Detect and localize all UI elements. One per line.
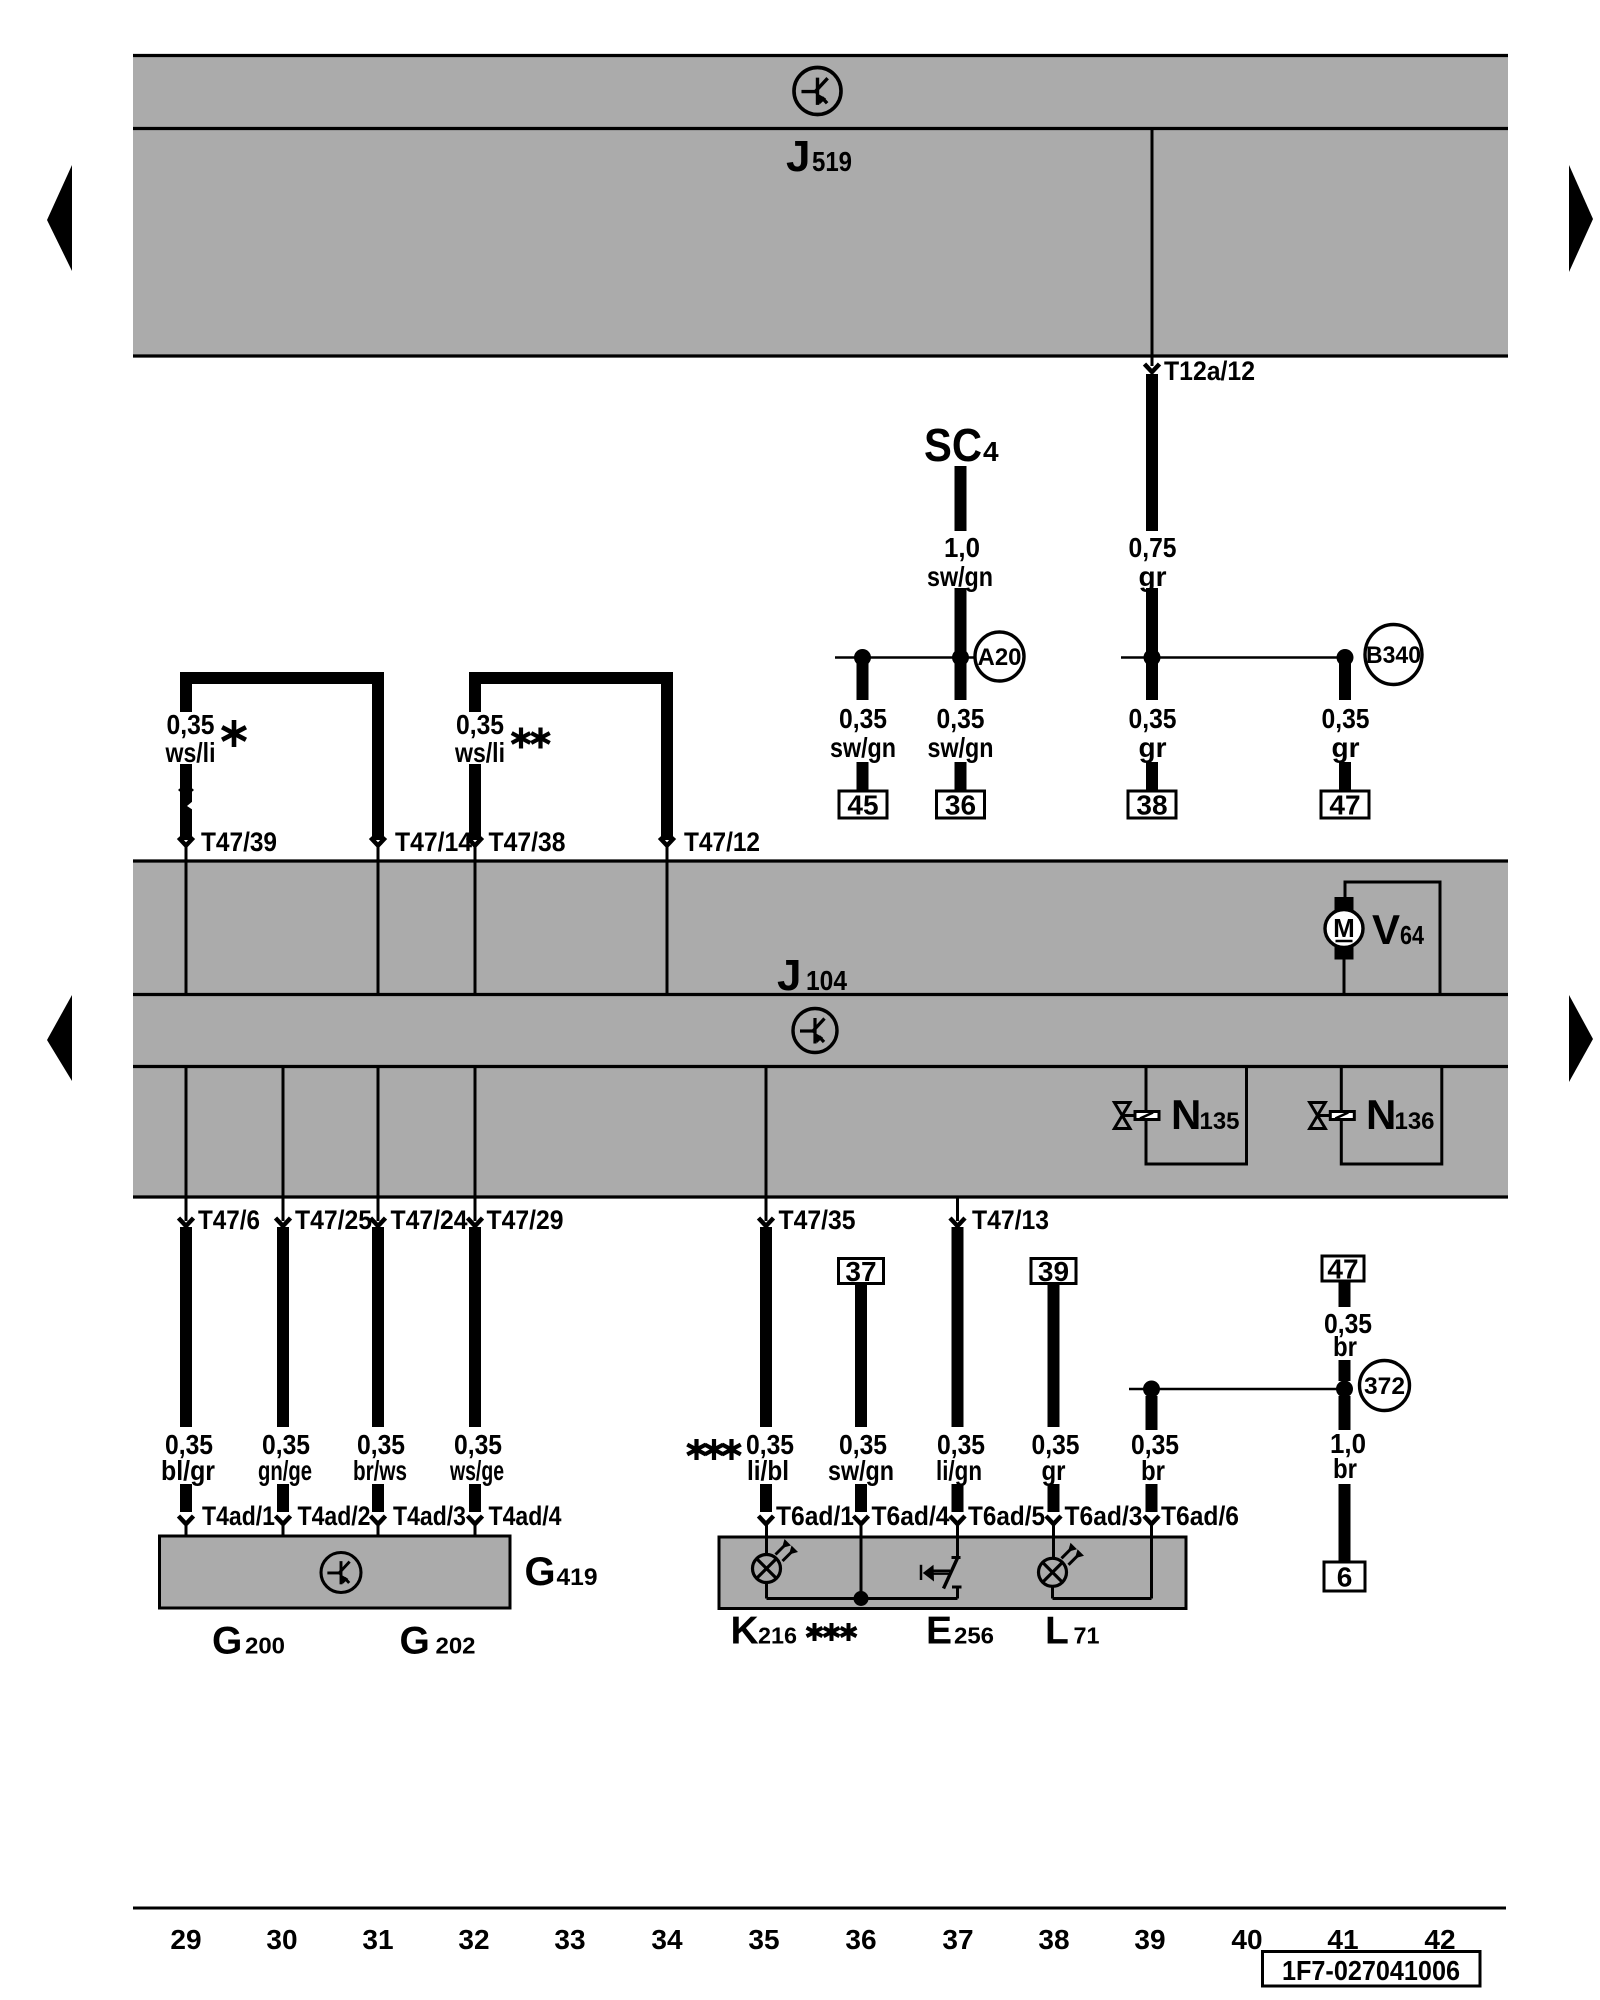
svg-text:30: 30 [266,1924,297,1955]
svg-text:T6ad/5: T6ad/5 [968,1501,1045,1531]
svg-text:135: 135 [1200,1108,1240,1135]
svg-text:T4ad/4: T4ad/4 [489,1501,562,1531]
svg-text:36: 36 [945,790,976,821]
svg-text:G: G [400,1620,430,1663]
svg-text:J: J [786,132,810,181]
svg-text:31: 31 [362,1924,393,1955]
svg-text:M: M [1333,913,1355,943]
svg-text:SC: SC [924,419,982,471]
svg-text:34: 34 [651,1924,683,1955]
svg-text:4: 4 [983,436,999,467]
svg-text:37: 37 [942,1924,973,1955]
svg-text:T47/14: T47/14 [395,827,472,857]
svg-text:br: br [1333,1453,1357,1484]
svg-text:47: 47 [1327,1254,1358,1285]
svg-text:G: G [212,1620,242,1663]
svg-text:T47/12: T47/12 [684,827,760,857]
svg-text:K: K [731,1610,759,1653]
svg-text:N: N [1171,1091,1201,1138]
svg-text:T4ad/2: T4ad/2 [298,1501,371,1531]
svg-text:J: J [777,951,801,1000]
svg-text:419: 419 [557,1564,598,1591]
svg-text:L: L [1045,1610,1069,1653]
svg-text:519: 519 [812,146,852,177]
svg-text:39: 39 [1134,1924,1165,1955]
svg-text:0,35: 0,35 [167,709,215,740]
svg-text:T6ad/1: T6ad/1 [776,1501,854,1531]
svg-text:45: 45 [847,790,878,821]
svg-text:gr: gr [1332,732,1360,763]
svg-text:T47/38: T47/38 [489,827,566,857]
svg-text:37: 37 [845,1256,876,1287]
svg-text:T47/29: T47/29 [487,1205,564,1235]
svg-text:A20: A20 [978,644,1022,671]
svg-text:0,35: 0,35 [937,703,985,734]
svg-text:T47/13: T47/13 [972,1205,1049,1235]
svg-text:256: 256 [954,1623,994,1649]
svg-text:T12a/12: T12a/12 [1164,356,1255,386]
svg-text:T6ad/6: T6ad/6 [1161,1501,1239,1531]
svg-text:64: 64 [1400,920,1424,950]
svg-text:N: N [1366,1091,1396,1138]
svg-text:40: 40 [1231,1924,1262,1955]
svg-text:T47/6: T47/6 [198,1205,260,1235]
svg-text:32: 32 [458,1924,489,1955]
svg-text:0,35: 0,35 [1129,703,1177,734]
svg-text:ws/ge: ws/ge [449,1455,504,1486]
svg-text:T6ad/3: T6ad/3 [1065,1501,1143,1531]
svg-text:V: V [1372,906,1400,953]
svg-text:ws/li: ws/li [165,737,216,768]
svg-text:0,35: 0,35 [456,709,504,740]
svg-text:gr: gr [1042,1455,1066,1486]
svg-text:T6ad/4: T6ad/4 [872,1501,950,1531]
svg-text:38: 38 [1136,790,1167,821]
svg-text:gn/ge: gn/ge [258,1455,312,1486]
svg-text:71: 71 [1074,1623,1100,1649]
svg-text:T47/39: T47/39 [201,827,277,857]
svg-text:li/bl: li/bl [747,1455,789,1486]
svg-text:47: 47 [1329,790,1360,821]
svg-text:G: G [525,1550,556,1594]
svg-text:1,0: 1,0 [944,532,980,563]
svg-text:li/gn: li/gn [936,1455,982,1486]
svg-text:104: 104 [806,965,847,996]
svg-text:0,75: 0,75 [1129,532,1177,563]
svg-text:T4ad/1: T4ad/1 [202,1501,275,1531]
svg-text:T47/35: T47/35 [779,1205,856,1235]
svg-text:29: 29 [170,1924,201,1955]
svg-text:br: br [1333,1331,1357,1362]
svg-text:0,35: 0,35 [1322,703,1370,734]
svg-text:1F7-027041006: 1F7-027041006 [1282,1955,1460,1986]
svg-text:35: 35 [748,1924,779,1955]
svg-text:T4ad/3: T4ad/3 [393,1501,466,1531]
svg-text:bl/gr: bl/gr [161,1455,215,1486]
svg-text:0,35: 0,35 [839,703,887,734]
svg-text:216: 216 [758,1623,797,1649]
svg-text:38: 38 [1038,1924,1069,1955]
svg-text:6: 6 [1337,1562,1353,1593]
svg-text:200: 200 [245,1633,285,1659]
svg-text:sw/gn: sw/gn [830,732,896,763]
svg-text:372: 372 [1364,1373,1405,1400]
svg-text:B340: B340 [1366,642,1421,669]
svg-text:T47/25: T47/25 [295,1205,372,1235]
svg-text:136: 136 [1395,1108,1435,1135]
svg-text:33: 33 [554,1924,585,1955]
svg-text:39: 39 [1038,1256,1069,1287]
svg-text:gr: gr [1139,561,1167,592]
svg-text:br/ws: br/ws [353,1455,407,1486]
svg-text:sw/gn: sw/gn [928,732,994,763]
svg-text:T47/24: T47/24 [391,1205,468,1235]
svg-text:E: E [926,1610,952,1653]
svg-text:br: br [1141,1455,1165,1486]
svg-text:202: 202 [436,1633,476,1659]
svg-text:sw/gn: sw/gn [927,561,993,592]
svg-text:sw/gn: sw/gn [828,1455,894,1486]
svg-text:36: 36 [845,1924,876,1955]
svg-text:gr: gr [1139,732,1167,763]
svg-text:ws/li: ws/li [454,737,505,768]
